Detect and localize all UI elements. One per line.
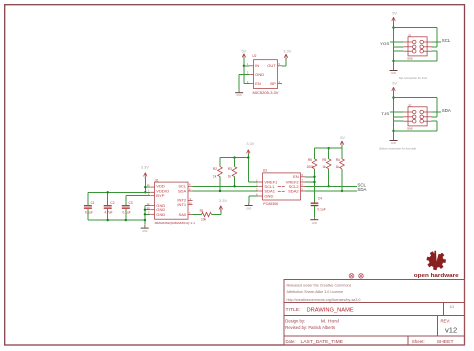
jumper JP2: [404, 103, 432, 130]
wire JP2 row3: [394, 120, 404, 122]
svg-text:GND: GND: [142, 230, 148, 233]
open hardware logo: [426, 250, 445, 270]
svg-text:TJS: TJS: [381, 111, 389, 116]
power flag 3.3V at pullup rail: [246, 141, 254, 156]
svg-text:SDA: SDA: [178, 188, 187, 193]
pin stubs right: [301, 176, 306, 178]
wire JP2 row2: [394, 116, 404, 118]
svg-text:MMA8452QMMA8451Q 1:1: MMA8452QMMA8451Q 1:1: [155, 221, 196, 225]
svg-text:0.1uF: 0.1uF: [123, 210, 131, 214]
svg-text:GND: GND: [255, 72, 264, 77]
wire JP2 row3 right: [432, 120, 437, 122]
svg-text:1/1: 1/1: [450, 305, 455, 309]
svg-text:Released under the Creative Co: Released under the Creative Commons: [287, 284, 352, 288]
ground under U3: [245, 203, 253, 211]
svg-text:REV:: REV:: [441, 319, 451, 324]
svg-text:SA0: SA0: [179, 212, 187, 217]
svg-text:Attribution Share-Alike 3.0 Li: Attribution Share-Alike 3.0 License: [287, 290, 344, 294]
svg-text:TITLE:: TITLE:: [286, 307, 301, 313]
capacitor C4: [311, 197, 326, 218]
svg-text:1k: 1k: [322, 165, 326, 169]
resistor R5: [322, 148, 331, 187]
svg-text:http://creativecommons.org/lic: http://creativecommons.org/licenses/by-s…: [287, 298, 361, 302]
svg-text:DRAWING_NAME: DRAWING_NAME: [307, 307, 354, 313]
power flag 5V at JP1: [392, 11, 398, 24]
svg-text:C2: C2: [110, 201, 114, 205]
svg-text:EN: EN: [255, 81, 261, 86]
svg-text:Revised by: Patrick Alberts: Revised by: Patrick Alberts: [285, 325, 335, 330]
wire GND pins vertical: [144, 206, 151, 225]
wire JP2 row1: [390, 111, 404, 113]
svg-text:R6: R6: [308, 158, 312, 162]
wire JP1 row2: [394, 46, 404, 48]
svg-text:IN: IN: [255, 63, 259, 68]
capacitor C2: [104, 191, 115, 221]
svg-text:R5: R5: [322, 158, 326, 162]
svg-text:BP: BP: [270, 81, 276, 86]
power flag 5V at U2: [242, 49, 247, 60]
pin stubs right: [188, 185, 193, 187]
wire OUT to 3.3V: [282, 58, 286, 66]
svg-text:5V: 5V: [392, 11, 397, 16]
resistor R1 SA0 pullup: [193, 209, 221, 221]
svg-text:INT1: INT1: [177, 202, 187, 207]
svg-text:GND: GND: [391, 72, 397, 75]
svg-text:1k: 1k: [213, 175, 217, 179]
pin stubs left: [258, 181, 262, 183]
svg-text:SDA: SDA: [357, 187, 366, 192]
svg-text:BYP: BYP: [156, 193, 164, 198]
wire U2 GND: [239, 74, 249, 90]
svg-text:Date:: Date:: [286, 339, 296, 344]
resistor R6: [307, 148, 317, 202]
svg-text:C3: C3: [129, 201, 133, 205]
svg-text:R2: R2: [213, 167, 217, 171]
svg-text:GND: GND: [246, 208, 252, 211]
svg-text:Bottom connection for host sid: Bottom connection for host side: [380, 147, 417, 151]
svg-text:4.7uF: 4.7uF: [104, 210, 112, 214]
ground under JP1: [390, 68, 398, 75]
wire SDA out: [305, 187, 366, 192]
svg-text:open hardware: open hardware: [414, 273, 459, 279]
svg-text:3.3V: 3.3V: [246, 141, 254, 146]
wire pullup rail: [220, 154, 258, 182]
svg-text:C1: C1: [91, 201, 95, 205]
wire SCL row from U1 to U3: [193, 185, 259, 187]
svg-text:Design by:: Design by:: [285, 318, 305, 323]
wire JP1 row1 right to SCL: [432, 38, 451, 43]
svg-text:R1: R1: [200, 209, 204, 213]
svg-text:GND: GND: [236, 94, 242, 97]
svg-text:BIGHD: BIGHD: [407, 56, 412, 60]
svg-text:U1: U1: [155, 178, 159, 182]
power flag 5V at right rail: [340, 135, 345, 148]
svg-text:Top connection for host: Top connection for host: [399, 76, 428, 80]
svg-text:1k: 1k: [228, 175, 232, 179]
svg-text:MIC5205-3.3V: MIC5205-3.3V: [253, 91, 280, 95]
jumper JP1: [404, 33, 432, 60]
svg-text:R3: R3: [228, 167, 232, 171]
svg-text:EN: EN: [293, 174, 299, 179]
ground under JP2: [390, 138, 398, 145]
IC U2 MIC5205: [247, 54, 282, 95]
wire cap top rail: [88, 191, 150, 193]
svg-text:C4: C4: [318, 197, 322, 201]
svg-text:SCL: SCL: [442, 38, 451, 43]
svg-text:5V: 5V: [392, 81, 397, 86]
capacitor C1: [84, 192, 95, 220]
wire JP2 row1 right to SDA: [432, 108, 451, 113]
power flag 3.3V at U2 OUT: [283, 49, 291, 61]
wire JP1 row2 right: [432, 46, 437, 48]
svg-text:LAST_DATE_TIME: LAST_DATE_TIME: [301, 339, 344, 344]
svg-text:R4: R4: [336, 158, 340, 162]
svg-text:GND: GND: [264, 193, 273, 198]
svg-text:3.3V: 3.3V: [141, 165, 149, 170]
svg-text:GND: GND: [156, 212, 165, 217]
wire BYP row: [126, 195, 150, 197]
wire JP1 row3: [394, 50, 404, 52]
wire SCL out: [305, 182, 366, 187]
wire SDA row from U1 to U3: [193, 190, 259, 192]
svg-text:200k: 200k: [307, 165, 314, 169]
pin stubs left: [150, 186, 154, 188]
fiducial marks: [349, 274, 363, 279]
svg-text:U2: U2: [252, 54, 256, 58]
svg-text:10k: 10k: [201, 218, 207, 222]
wire JP2 bottom loop: [394, 121, 437, 131]
wire cap bottom rail: [88, 219, 145, 221]
svg-text:0.1uF: 0.1uF: [85, 210, 93, 214]
svg-text:3.3V: 3.3V: [283, 49, 291, 54]
svg-text:Sheet:: Sheet:: [412, 339, 425, 344]
capacitor C3: [122, 196, 133, 222]
svg-text:M. Hord: M. Hord: [321, 318, 340, 323]
svg-text:SDA2: SDA2: [288, 189, 299, 194]
svg-text:YOS: YOS: [380, 41, 390, 46]
wire EN / VREF2 tie: [305, 176, 316, 184]
resistor R4: [336, 148, 345, 192]
power flag 5V at JP2: [392, 81, 398, 94]
wire JP1 bottom loop: [394, 51, 437, 61]
wire 3.3V to VDD/VDDIO: [144, 179, 150, 194]
svg-text:GND: GND: [312, 222, 318, 225]
IC U1 MMA8452Q accelerometer: [147, 178, 196, 225]
ground under U2: [235, 91, 243, 98]
wire 5V to IN/EN: [243, 58, 249, 84]
wire U3 GND: [249, 196, 258, 203]
wire JP2 5V vertical: [392, 91, 394, 138]
resistor R3: [228, 158, 237, 188]
ground under U1: [141, 225, 149, 234]
wire right rail: [315, 147, 343, 149]
svg-text:GND: GND: [391, 142, 397, 145]
IC U3 PCA9306 level translator: [256, 169, 305, 207]
ground under C4: [310, 217, 318, 225]
svg-text:BIGHD: BIGHD: [407, 126, 412, 130]
svg-text:1k: 1k: [336, 165, 340, 169]
svg-text:5V: 5V: [340, 135, 345, 140]
wire JP1 5V vertical: [392, 21, 394, 68]
svg-text:SDA: SDA: [442, 108, 451, 113]
svg-text:OUT: OUT: [267, 63, 276, 68]
svg-text:3.3V: 3.3V: [219, 198, 227, 203]
svg-text:PCA9306: PCA9306: [263, 202, 278, 206]
svg-text:U3: U3: [263, 169, 267, 173]
wire JP1 top loop: [394, 28, 437, 47]
power flag 3.3V at SA0: [219, 198, 227, 212]
wire JP2 row2 right: [432, 116, 437, 118]
svg-text:SHEET: SHEET: [437, 339, 454, 344]
wire JP1 row1: [390, 41, 404, 43]
wire JP1 row3 right: [432, 50, 437, 52]
power flag 3.3V at U1: [141, 165, 149, 179]
svg-text:v12: v12: [445, 325, 457, 334]
wire JP2 top loop: [394, 98, 437, 117]
svg-text:5V: 5V: [242, 49, 247, 54]
svg-text:0.1uF: 0.1uF: [318, 207, 326, 211]
resistor R2: [213, 158, 222, 193]
